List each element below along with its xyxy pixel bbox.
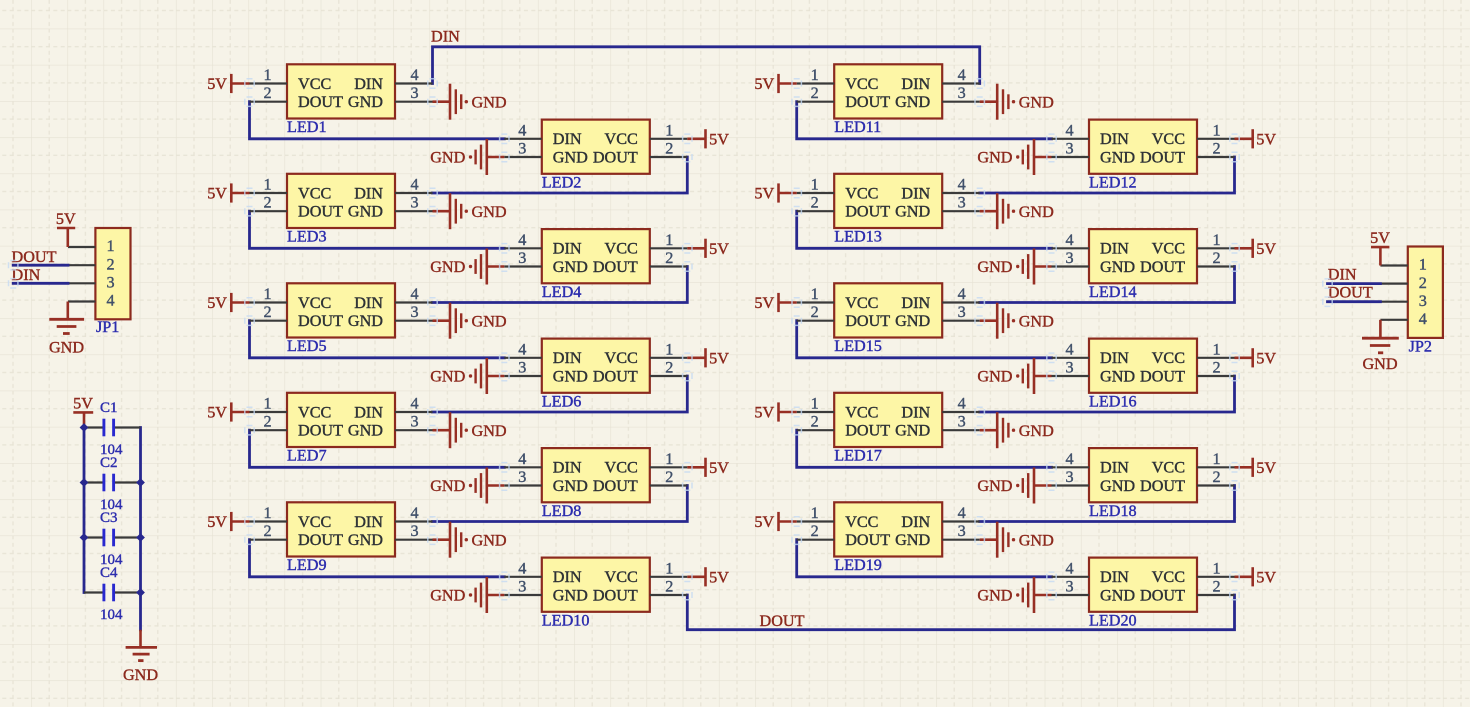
junction marks LED4 (500, 244, 692, 272)
pin 2 (DOUT) of LED4 (650, 249, 688, 267)
svg-text:VCC: VCC (845, 403, 878, 421)
svg-text:3: 3 (518, 578, 526, 596)
svg-text:3: 3 (1065, 578, 1073, 596)
svg-text:3: 3 (1065, 359, 1073, 377)
LED module LED11 (WS2812) body (834, 64, 942, 118)
svg-text:GND: GND (430, 368, 465, 386)
svg-text:VCC: VCC (605, 568, 638, 586)
svg-text:DIN: DIN (901, 403, 930, 421)
pin 1 of JP1 (68, 246, 95, 248)
svg-text:LED17: LED17 (834, 447, 882, 465)
ground symbol GND at LED1 pin 3 (433, 84, 507, 120)
pin 1 (VCC) of LED11 (797, 66, 835, 84)
svg-text:GND: GND (895, 531, 930, 549)
svg-text:4: 4 (518, 450, 526, 468)
wire: LED DOUT pin2 down-right to next DIN pin4 (R column pair 5) (797, 540, 1052, 577)
svg-text:2: 2 (811, 413, 819, 431)
LED module LED2 (WS2812) body (542, 120, 650, 174)
pin 3 (GND) of LED6 (504, 359, 542, 377)
svg-text:4: 4 (518, 340, 526, 358)
LED module LED8 (WS2812) body (542, 448, 650, 502)
power port 5V at LED1 pin 1 (207, 74, 249, 93)
power port 5V at LED4 pin 1 (687, 239, 729, 258)
svg-text:4: 4 (1065, 340, 1073, 358)
pin 2 (DOUT) of LED16 (1197, 359, 1235, 377)
pin 3 (GND) of LED14 (1052, 249, 1090, 267)
svg-text:DIN: DIN (901, 75, 930, 93)
power port 5V at LED6 pin 1 (687, 348, 729, 367)
svg-text:3: 3 (410, 413, 418, 431)
pin 1 (VCC) of LED10 (650, 559, 688, 577)
svg-text:4: 4 (410, 395, 418, 413)
pin 3 (GND) of LED2 (504, 140, 542, 158)
junction marks LED6 (500, 353, 692, 381)
LED module LED3 (WS2812) body (287, 174, 395, 228)
pin 3 (GND) of LED17 (942, 413, 980, 431)
svg-text:4: 4 (1065, 231, 1073, 249)
junction marks LED10 (500, 572, 692, 600)
svg-text:C3: C3 (100, 510, 118, 526)
svg-text:2: 2 (263, 194, 271, 212)
wire: JP1 pin 2 (13, 264, 68, 267)
wire: even LED DOUT down-left to next odd LED DIN (L column pair 1) (433, 157, 688, 193)
ground symbol GND at LED15 pin 3 (980, 303, 1054, 339)
svg-text:LED18: LED18 (1089, 502, 1137, 520)
svg-text:DIN: DIN (553, 240, 582, 258)
svg-text:GND: GND (895, 312, 930, 330)
svg-text:LED2: LED2 (542, 173, 582, 191)
svg-text:1: 1 (665, 450, 673, 468)
svg-text:3: 3 (410, 194, 418, 212)
pin 4 (DIN) of LED14 (1052, 231, 1090, 249)
wire: even LED DOUT down-left to next odd LED DIN (L column pair 2) (433, 267, 688, 303)
pin 4 (DIN) of LED4 (504, 231, 542, 249)
pin 2 (DOUT) of LED5 (250, 303, 288, 321)
LED module LED13 (WS2812) body (834, 174, 942, 228)
svg-text:GND: GND (1100, 586, 1135, 604)
svg-text:DOUT: DOUT (1328, 283, 1373, 301)
svg-text:2: 2 (1212, 359, 1220, 377)
svg-text:5V: 5V (207, 404, 227, 422)
ground symbol GND at LED18 pin 3 (977, 468, 1051, 504)
ground symbol GND at LED5 pin 3 (433, 303, 507, 339)
svg-text:VCC: VCC (1152, 568, 1185, 586)
svg-text:GND: GND (348, 203, 383, 221)
junction marks LED12 (1047, 134, 1239, 162)
svg-text:1: 1 (1212, 231, 1220, 249)
pin 3 (GND) of LED10 (504, 578, 542, 596)
svg-text:DIN: DIN (1100, 459, 1129, 477)
junction marks LED5 (245, 298, 437, 326)
pin 4 of JP1 (68, 300, 95, 302)
svg-text:GND: GND (1100, 148, 1135, 166)
capacitor C4 (84, 584, 141, 602)
pin 2 (DOUT) of LED18 (1197, 468, 1235, 486)
pin 3 (GND) of LED11 (942, 84, 980, 102)
svg-text:GND: GND (1100, 258, 1135, 276)
svg-text:DOUT: DOUT (1140, 477, 1185, 495)
svg-text:C2: C2 (100, 455, 118, 471)
pin 3 (GND) of LED16 (1052, 359, 1090, 377)
svg-text:4: 4 (1065, 121, 1073, 139)
svg-text:2: 2 (1212, 140, 1220, 158)
pin 1 (VCC) of LED16 (1197, 340, 1235, 358)
svg-text:1: 1 (1212, 559, 1220, 577)
wire: JP2 pin 2 (1328, 282, 1381, 285)
pin 1 (VCC) of LED5 (250, 285, 288, 303)
pin 3 (GND) of LED7 (395, 413, 433, 431)
wire: even LED DOUT down-left to next odd LED DIN (R column pair 2) (980, 267, 1235, 303)
svg-text:3: 3 (518, 468, 526, 486)
svg-text:4: 4 (410, 176, 418, 194)
ground symbol GND at LED7 pin 3 (433, 412, 507, 448)
svg-text:GND: GND (1019, 93, 1054, 111)
junction marks LED14 (1047, 244, 1239, 272)
svg-text:LED1: LED1 (287, 118, 327, 136)
svg-text:GND: GND (553, 148, 588, 166)
svg-text:5V: 5V (709, 568, 729, 586)
svg-text:DIN: DIN (901, 294, 930, 312)
svg-text:DIN: DIN (12, 266, 41, 284)
pin 4 of JP2 (1380, 319, 1407, 321)
power port 5V at LED20 pin 1 (1235, 567, 1277, 586)
pin 3 (GND) of LED9 (395, 522, 433, 540)
ground symbol GND at LED6 pin 3 (430, 358, 504, 394)
svg-text:DOUT: DOUT (298, 93, 343, 111)
junction marks LED20 (1047, 572, 1239, 600)
junction marks LED11 (792, 79, 984, 107)
wire: LED DOUT pin2 down-right to next DIN pin4 (L column pair 1) (250, 102, 505, 139)
svg-text:DIN: DIN (1100, 568, 1129, 586)
power port 5V at LED17 pin 1 (754, 402, 796, 421)
pin 3 (GND) of LED1 (395, 84, 433, 102)
power port 5V at LED19 pin 1 (754, 512, 796, 531)
wire: DOUT net rail from LED10 pin2 to LED20 pin2 (687, 595, 1234, 630)
pin 4 (DIN) of LED19 (942, 504, 980, 522)
pin 2 (DOUT) of LED13 (797, 194, 835, 212)
svg-text:5V: 5V (709, 130, 729, 148)
pin 3 (GND) of LED5 (395, 303, 433, 321)
svg-text:3: 3 (958, 84, 966, 102)
LED module LED16 (WS2812) body (1089, 339, 1197, 393)
svg-text:VCC: VCC (1152, 130, 1185, 148)
ground symbol GND below capacitor bank (123, 630, 158, 684)
svg-text:GND: GND (1362, 355, 1397, 373)
pin 4 (DIN) of LED13 (942, 176, 980, 194)
pin 4 (DIN) of LED15 (942, 285, 980, 303)
svg-text:GND: GND (348, 93, 383, 111)
pin 4 (DIN) of LED5 (395, 285, 433, 303)
svg-text:5V: 5V (754, 404, 774, 422)
svg-text:GND: GND (977, 258, 1012, 276)
svg-text:DIN: DIN (354, 75, 383, 93)
pin 2 (DOUT) of LED7 (250, 413, 288, 431)
connector JP2 body (1408, 247, 1443, 338)
svg-text:LED6: LED6 (542, 392, 582, 410)
svg-text:2: 2 (665, 578, 673, 596)
ground symbol GND at LED17 pin 3 (980, 412, 1054, 448)
wire: LED DOUT pin2 down-right to next DIN pin4 (L column pair 5) (250, 540, 505, 577)
pin 2 of JP2 (1380, 283, 1407, 285)
power port 5V at LED2 pin 1 (687, 129, 729, 148)
svg-text:DOUT: DOUT (845, 531, 890, 549)
svg-text:1: 1 (1212, 121, 1220, 139)
svg-text:LED13: LED13 (834, 228, 882, 246)
junction marks LED18 (1047, 463, 1239, 491)
LED module LED19 (WS2812) body (834, 502, 942, 556)
ground symbol GND at LED9 pin 3 (433, 522, 507, 558)
wire: JP2 pin 3 (1328, 300, 1381, 303)
svg-text:3: 3 (1065, 140, 1073, 158)
svg-text:DOUT: DOUT (298, 203, 343, 221)
svg-text:1: 1 (665, 340, 673, 358)
svg-text:4: 4 (410, 66, 418, 84)
svg-text:2: 2 (1212, 578, 1220, 596)
svg-text:5V: 5V (207, 75, 227, 93)
pin 3 (GND) of LED8 (504, 468, 542, 486)
svg-text:DIN: DIN (1100, 349, 1129, 367)
power port 5V at LED16 pin 1 (1235, 348, 1277, 367)
junction marks LED9 (245, 517, 437, 545)
ground symbol GND at LED16 pin 3 (977, 358, 1051, 394)
svg-text:GND: GND (1100, 367, 1135, 385)
power port 5V at LED9 pin 1 (207, 512, 249, 531)
junction marks LED8 (500, 463, 692, 491)
junction marks JP1 (9, 261, 18, 288)
svg-text:1: 1 (1212, 450, 1220, 468)
svg-text:5V: 5V (709, 459, 729, 477)
svg-text:3: 3 (518, 249, 526, 267)
power port 5V at JP2 pin 1 (1370, 229, 1390, 265)
svg-text:4: 4 (958, 395, 966, 413)
LED module LED4 (WS2812) body (542, 229, 650, 283)
pin 2 (DOUT) of LED15 (797, 303, 835, 321)
svg-text:5V: 5V (754, 75, 774, 93)
pin 1 (VCC) of LED8 (650, 450, 688, 468)
svg-text:3: 3 (958, 413, 966, 431)
svg-text:4: 4 (958, 66, 966, 84)
power port 5V at LED11 pin 1 (754, 74, 796, 93)
svg-text:3: 3 (1419, 292, 1427, 310)
svg-text:3: 3 (518, 359, 526, 377)
svg-text:VCC: VCC (845, 513, 878, 531)
pin 1 (VCC) of LED6 (650, 340, 688, 358)
svg-text:1: 1 (263, 395, 271, 413)
svg-text:DIN: DIN (354, 184, 383, 202)
svg-text:DIN: DIN (553, 568, 582, 586)
svg-text:3: 3 (107, 274, 115, 292)
svg-text:GND: GND (553, 258, 588, 276)
svg-text:DIN: DIN (354, 513, 383, 531)
svg-text:3: 3 (410, 522, 418, 540)
svg-text:2: 2 (665, 468, 673, 486)
svg-text:4: 4 (518, 231, 526, 249)
svg-text:C4: C4 (100, 565, 118, 581)
pin 4 (DIN) of LED9 (395, 504, 433, 522)
power port 5V at LED5 pin 1 (207, 293, 249, 312)
svg-text:4: 4 (107, 292, 115, 310)
svg-text:GND: GND (472, 422, 507, 440)
pin 1 (VCC) of LED1 (250, 66, 288, 84)
svg-text:GND: GND (1100, 477, 1135, 495)
svg-text:4: 4 (410, 285, 418, 303)
svg-text:5V: 5V (207, 294, 227, 312)
svg-text:DIN: DIN (553, 130, 582, 148)
svg-text:4: 4 (410, 504, 418, 522)
svg-text:3: 3 (410, 303, 418, 321)
svg-text:4: 4 (1419, 310, 1427, 328)
svg-text:LED4: LED4 (542, 283, 582, 301)
svg-text:5V: 5V (709, 240, 729, 258)
ground symbol GND at LED8 pin 3 (430, 468, 504, 504)
pin 4 (DIN) of LED1 (395, 66, 433, 84)
svg-text:VCC: VCC (845, 184, 878, 202)
pin 2 (DOUT) of LED10 (650, 578, 688, 596)
junction marks LED2 (500, 134, 692, 162)
svg-text:DOUT: DOUT (1140, 586, 1185, 604)
wire: LED DOUT pin2 down-right to next DIN pin4 (R column pair 2) (797, 211, 1052, 248)
svg-text:4: 4 (518, 559, 526, 577)
svg-text:GND: GND (895, 422, 930, 440)
svg-text:GND: GND (430, 477, 465, 495)
junction marks LED1 (245, 79, 437, 107)
LED module LED5 (WS2812) body (287, 283, 395, 337)
pin 1 (VCC) of LED3 (250, 176, 288, 194)
svg-text:GND: GND (430, 258, 465, 276)
svg-text:GND: GND (895, 203, 930, 221)
wire: even LED DOUT down-left to next odd LED DIN (L column pair 4) (433, 486, 688, 522)
pin 2 (DOUT) of LED2 (650, 140, 688, 158)
ground symbol GND at LED12 pin 3 (977, 139, 1051, 175)
LED module LED10 (WS2812) body (542, 558, 650, 612)
svg-text:2: 2 (665, 359, 673, 377)
svg-text:2: 2 (263, 522, 271, 540)
svg-text:DOUT: DOUT (845, 312, 890, 330)
svg-text:LED9: LED9 (287, 556, 327, 574)
svg-text:VCC: VCC (298, 513, 331, 531)
svg-text:1: 1 (811, 504, 819, 522)
svg-text:GND: GND (895, 93, 930, 111)
svg-text:GND: GND (1019, 312, 1054, 330)
LED module LED18 (WS2812) body (1089, 448, 1197, 502)
svg-text:5V: 5V (56, 210, 76, 228)
svg-text:1: 1 (263, 285, 271, 303)
junction marks LED15 (792, 298, 984, 326)
junction marks JP2 (1323, 279, 1332, 307)
svg-text:GND: GND (123, 666, 158, 684)
svg-text:LED11: LED11 (834, 118, 881, 136)
svg-text:3: 3 (410, 84, 418, 102)
svg-text:DOUT: DOUT (845, 93, 890, 111)
svg-text:DOUT: DOUT (593, 586, 638, 604)
svg-text:GND: GND (472, 531, 507, 549)
svg-text:5V: 5V (1370, 229, 1390, 247)
pin 3 (GND) of LED3 (395, 194, 433, 212)
power port 5V at LED3 pin 1 (207, 183, 249, 202)
pin 2 (DOUT) of LED14 (1197, 249, 1235, 267)
svg-text:3: 3 (958, 194, 966, 212)
pin 1 (VCC) of LED12 (1197, 121, 1235, 139)
svg-text:2: 2 (665, 249, 673, 267)
svg-text:5V: 5V (1256, 349, 1276, 367)
pin 1 (VCC) of LED20 (1197, 559, 1235, 577)
wire: LED DOUT pin2 down-right to next DIN pin4 (L column pair 4) (250, 430, 505, 467)
svg-text:2: 2 (665, 140, 673, 158)
svg-text:VCC: VCC (845, 75, 878, 93)
svg-text:DIN: DIN (1100, 240, 1129, 258)
pin 3 of JP2 (1380, 301, 1407, 303)
wire: capacitor bank left bus (83, 428, 86, 593)
pin 2 (DOUT) of LED8 (650, 468, 688, 486)
junction marks LED13 (792, 188, 984, 216)
svg-text:2: 2 (263, 413, 271, 431)
wire: LED DOUT pin2 down-right to next DIN pin4 (R column pair 3) (797, 321, 1052, 358)
svg-text:DOUT: DOUT (1140, 258, 1185, 276)
wire: even LED DOUT down-left to next odd LED DIN (L column pair 3) (433, 376, 688, 412)
pin 2 (DOUT) of LED20 (1197, 578, 1235, 596)
pin 3 (GND) of LED18 (1052, 468, 1090, 486)
svg-text:2: 2 (811, 194, 819, 212)
pin 4 (DIN) of LED2 (504, 121, 542, 139)
svg-text:104: 104 (100, 607, 123, 623)
svg-text:VCC: VCC (298, 184, 331, 202)
pin 4 (DIN) of LED11 (942, 66, 980, 84)
svg-text:VCC: VCC (298, 75, 331, 93)
svg-text:DOUT: DOUT (298, 312, 343, 330)
pin 1 (VCC) of LED7 (250, 395, 288, 413)
svg-text:DOUT: DOUT (298, 531, 343, 549)
pin 3 (GND) of LED20 (1052, 578, 1090, 596)
pin 1 (VCC) of LED18 (1197, 450, 1235, 468)
svg-text:5V: 5V (754, 513, 774, 531)
wire: DIN net rail from LED1 pin4 to LED11 pin4 (433, 47, 980, 84)
svg-text:5V: 5V (754, 185, 774, 203)
svg-text:1: 1 (665, 231, 673, 249)
pin 4 (DIN) of LED12 (1052, 121, 1090, 139)
connector JP1 body (95, 228, 130, 319)
svg-text:VCC: VCC (1152, 459, 1185, 477)
pin 4 (DIN) of LED8 (504, 450, 542, 468)
svg-text:GND: GND (49, 339, 84, 357)
svg-text:1: 1 (1419, 256, 1427, 274)
svg-text:DOUT: DOUT (593, 477, 638, 495)
svg-text:GND: GND (472, 93, 507, 111)
svg-text:DOUT: DOUT (845, 203, 890, 221)
power port 5V at LED14 pin 1 (1235, 239, 1277, 258)
svg-text:DOUT: DOUT (845, 422, 890, 440)
svg-text:VCC: VCC (605, 459, 638, 477)
svg-text:GND: GND (472, 312, 507, 330)
svg-text:DIN: DIN (354, 294, 383, 312)
LED module LED17 (WS2812) body (834, 393, 942, 447)
svg-text:1: 1 (811, 285, 819, 303)
svg-text:GND: GND (348, 312, 383, 330)
svg-text:LED3: LED3 (287, 228, 327, 246)
pin 2 (DOUT) of LED17 (797, 413, 835, 431)
power port 5V at LED10 pin 1 (687, 567, 729, 586)
svg-text:LED15: LED15 (834, 337, 882, 355)
svg-text:VCC: VCC (605, 349, 638, 367)
pin 4 (DIN) of LED6 (504, 340, 542, 358)
power port 5V at LED18 pin 1 (1235, 458, 1277, 477)
ground symbol GND at LED10 pin 3 (430, 577, 504, 613)
svg-text:LED14: LED14 (1089, 283, 1137, 301)
svg-text:2: 2 (107, 255, 115, 273)
wire: LED DOUT pin2 down-right to next DIN pin4 (R column pair 4) (797, 430, 1052, 467)
svg-text:DIN: DIN (553, 459, 582, 477)
svg-text:LED19: LED19 (834, 556, 882, 574)
svg-text:VCC: VCC (845, 294, 878, 312)
